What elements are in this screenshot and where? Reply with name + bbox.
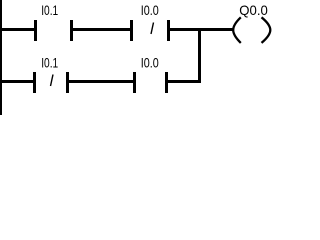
NC slash rung2 xyxy=(51,75,54,87)
contact I0.1 (NC) left bar rung2 xyxy=(33,72,36,93)
svg-text:I0.0: I0.0 xyxy=(141,2,159,18)
wire rung2: I0.1 to I0.0 xyxy=(66,80,136,83)
svg-text:Q0.0: Q0.0 xyxy=(239,2,268,18)
contact I0.1 (NO) right bar xyxy=(70,20,73,41)
svg-text:I0.0: I0.0 xyxy=(141,55,159,71)
contact I0.0 (NO) left bar rung2 xyxy=(133,72,136,93)
contact I0.0 (NC) right bar xyxy=(167,20,170,41)
contact I0.0 (NO) right bar rung2 xyxy=(165,72,168,93)
svg-text:I0.1: I0.1 xyxy=(41,2,58,18)
NC slash rung1 xyxy=(151,23,154,35)
wire rung1: I0.0 to coil xyxy=(167,28,233,31)
left power rail xyxy=(0,0,2,115)
contact I0.1 (NC) right bar rung2 xyxy=(66,72,69,93)
contact I0.0 (NC) left bar xyxy=(130,20,133,41)
wire rung2: rail to contact I0.1 xyxy=(0,80,36,83)
coil Q0.0 right paren xyxy=(262,17,271,43)
svg-text:I0.1: I0.1 xyxy=(41,55,58,71)
contact I0.1 (NO) left bar xyxy=(34,20,37,41)
branch vertical connector xyxy=(198,28,201,83)
wire rung1: rail to contact I0.1 xyxy=(0,28,37,31)
wire rung2: I0.0 to branch xyxy=(165,80,201,83)
coil Q0.0 left paren xyxy=(233,17,241,43)
wire rung1: I0.1 to I0.0 xyxy=(70,28,133,31)
